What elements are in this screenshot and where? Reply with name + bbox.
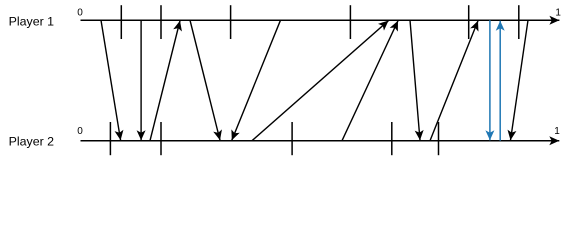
svg-text:0: 0: [77, 7, 83, 18]
svg-text:1: 1: [554, 126, 560, 137]
svg-text:Player 2: Player 2: [9, 135, 55, 149]
svg-text:Player 1: Player 1: [9, 15, 55, 29]
svg-text:0: 0: [77, 126, 83, 137]
svg-text:1: 1: [555, 7, 561, 18]
